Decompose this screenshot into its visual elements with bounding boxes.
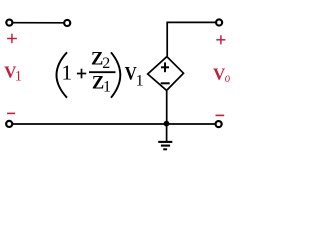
ground symbol bbox=[158, 124, 172, 149]
svg-text:1: 1 bbox=[136, 72, 144, 89]
svg-text:o: o bbox=[225, 70, 230, 85]
terminal: V1 negative input bbox=[6, 121, 12, 127]
wire: top-left input lead bbox=[13, 22, 64, 24]
terminal: input lead right end bbox=[64, 20, 70, 26]
wire: bottom rail bbox=[13, 123, 215, 125]
terminal: Vo negative output bbox=[216, 121, 222, 127]
svg-text:1: 1 bbox=[103, 79, 111, 96]
label: - polarity of Vo (red) bbox=[216, 114, 225, 116]
terminal: Vo positive output bbox=[216, 19, 222, 25]
wire: dependent source top lead to output bbox=[167, 22, 216, 56]
gain expression: right parenthesis bbox=[111, 52, 120, 97]
label: + polarity of V1 (red) bbox=[7, 34, 17, 44]
svg-text:2: 2 bbox=[102, 55, 110, 72]
svg-text:1: 1 bbox=[15, 68, 22, 84]
dependent source: - mark inside bbox=[161, 82, 170, 84]
node: junction dot on bottom rail bbox=[164, 121, 170, 127]
gain expression: plus sign bbox=[77, 69, 86, 79]
gain expression: left parenthesis bbox=[57, 52, 68, 97]
terminal: V1 positive input bbox=[6, 20, 12, 26]
wire: dependent source bottom lead bbox=[166, 91, 168, 124]
dependent source: diamond body bbox=[148, 57, 184, 91]
gain expression: fraction bar bbox=[89, 71, 116, 73]
svg-text:1: 1 bbox=[61, 60, 72, 84]
label: - polarity of V1 (red) bbox=[7, 112, 15, 114]
label: + polarity of Vo (red) bbox=[216, 35, 225, 44]
dependent source: + mark inside bbox=[161, 62, 169, 72]
